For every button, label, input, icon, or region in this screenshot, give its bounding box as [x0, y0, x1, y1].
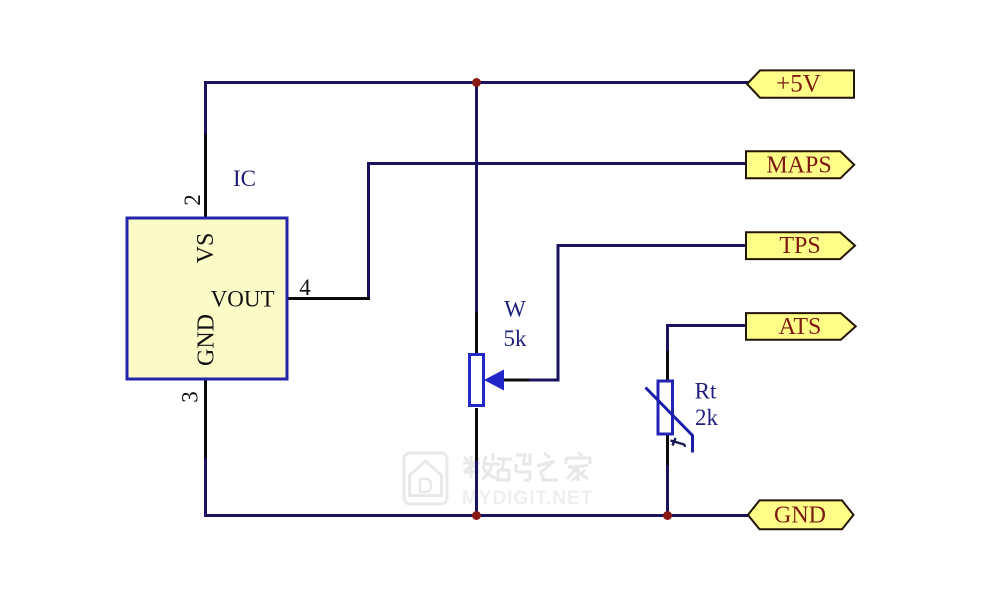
port flag ATS — [746, 313, 856, 340]
port flag MAPS — [746, 151, 854, 178]
port flag GND — [748, 500, 854, 529]
svg-text:Rt: Rt — [695, 379, 717, 404]
svg-text:W: W — [504, 297, 526, 322]
pin 4 stub — [286, 297, 370, 300]
wire left vertical to IC pin2 — [204, 81, 207, 136]
potentiometer wiper arrow — [484, 370, 504, 391]
port flag TPS — [746, 232, 855, 259]
svg-text:+5V: +5V — [776, 71, 821, 98]
thermistor Rt body — [658, 381, 673, 434]
svg-text:4: 4 — [299, 275, 311, 300]
wire ATS to thermistor — [668, 326, 747, 354]
potentiometer top pin — [475, 312, 478, 353]
thermistor top pin — [666, 351, 669, 381]
svg-text:TPS: TPS — [779, 233, 820, 259]
svg-text:2k: 2k — [695, 405, 719, 430]
pin 3 stub — [204, 379, 207, 458]
thermistor diagonal stroke — [646, 388, 693, 453]
thermistor t mark — [671, 438, 685, 447]
wire top +5V rail — [204, 81, 748, 84]
wire thermistor to bottom rail — [666, 463, 669, 517]
wire W branch lower — [475, 459, 478, 517]
wire IC pin3 to bottom rail — [204, 456, 207, 517]
wiper pin — [503, 379, 529, 382]
IC U1 body — [127, 218, 287, 379]
port flag +5V — [747, 70, 854, 97]
svg-text:GND: GND — [774, 503, 826, 529]
svg-text:GND: GND — [194, 314, 220, 366]
watermark char ma — [497, 453, 530, 480]
junction bottom Rt branch — [663, 511, 672, 520]
svg-text:ATS: ATS — [779, 314, 822, 340]
watermark char zhi — [537, 453, 558, 480]
svg-text:2: 2 — [180, 194, 205, 206]
wire wiper to TPS — [505, 246, 746, 381]
svg-text:MAPS: MAPS — [766, 152, 831, 178]
watermark logo box — [404, 453, 447, 504]
watermark char jia — [566, 452, 590, 481]
svg-text:MYDIGIT.NET: MYDIGIT.NET — [462, 488, 593, 509]
wire VOUT to MAPS — [369, 164, 747, 301]
potentiometer W body — [470, 355, 484, 406]
potentiometer bottom pin — [475, 408, 478, 461]
svg-text:VS: VS — [193, 233, 219, 264]
wire W branch upper — [475, 81, 478, 314]
pin 2 stub — [204, 134, 207, 218]
svg-text:3: 3 — [178, 391, 203, 403]
watermark char shu — [463, 453, 500, 479]
wire bottom GND rail — [204, 514, 748, 517]
svg-text:5k: 5k — [504, 326, 528, 351]
thermistor bottom pin — [666, 435, 669, 465]
svg-text:VOUT: VOUT — [211, 287, 275, 312]
svg-text:IC: IC — [233, 166, 256, 191]
junction bottom W branch — [472, 511, 481, 520]
junction top W branch — [472, 78, 481, 87]
